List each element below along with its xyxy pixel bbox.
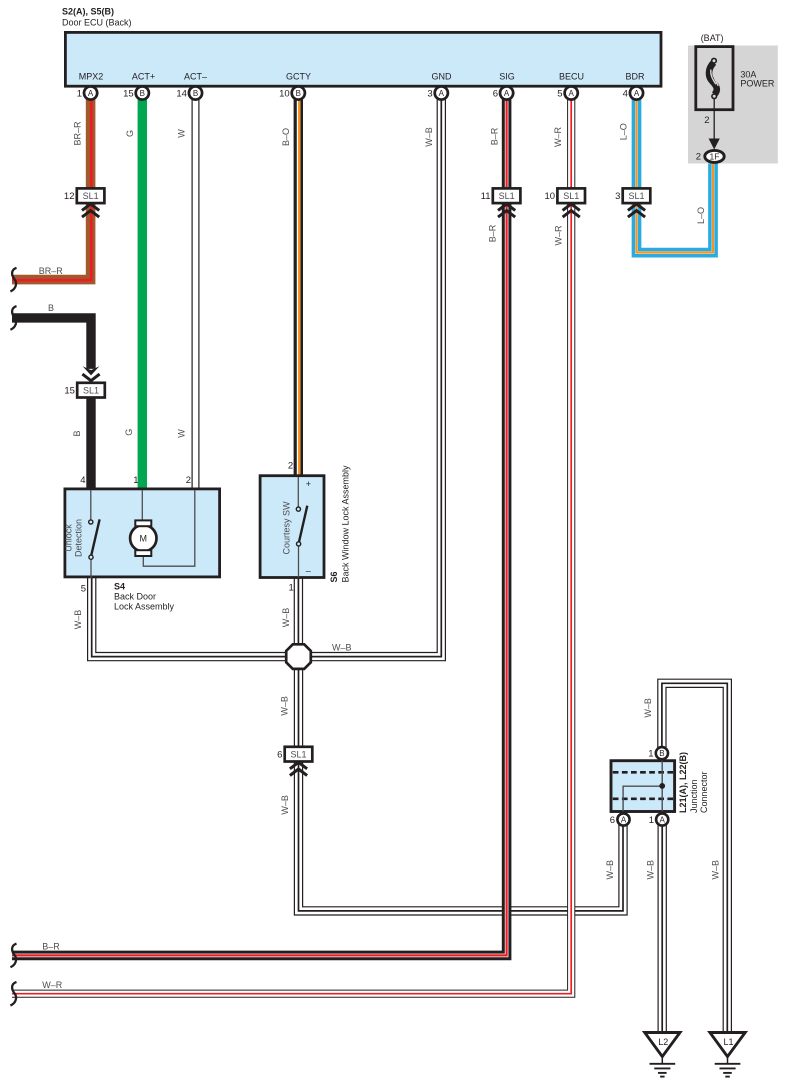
svg-text:Courtesy SW: Courtesy SW bbox=[282, 501, 292, 555]
svg-text:Junction: Junction bbox=[689, 779, 699, 813]
svg-text:ACT–: ACT– bbox=[184, 72, 207, 82]
svg-text:M: M bbox=[140, 533, 148, 543]
svg-text:BECU: BECU bbox=[559, 72, 584, 82]
svg-text:W–R: W–R bbox=[42, 980, 63, 990]
svg-text:SL1: SL1 bbox=[563, 191, 579, 201]
svg-text:2: 2 bbox=[704, 115, 709, 126]
svg-text:BDR: BDR bbox=[625, 72, 645, 82]
svg-text:W–B: W–B bbox=[280, 795, 290, 815]
svg-text:GND: GND bbox=[432, 72, 453, 82]
svg-text:B–R: B–R bbox=[42, 942, 60, 952]
svg-text:B: B bbox=[296, 89, 301, 98]
svg-text:G: G bbox=[124, 429, 134, 436]
svg-text:(BAT): (BAT) bbox=[701, 33, 724, 43]
svg-text:B: B bbox=[48, 303, 54, 313]
svg-text:S4: S4 bbox=[114, 582, 125, 592]
svg-text:A: A bbox=[88, 89, 94, 98]
svg-text:1: 1 bbox=[648, 749, 653, 760]
svg-text:15: 15 bbox=[64, 385, 75, 396]
svg-text:W–B: W–B bbox=[332, 643, 352, 653]
svg-text:Door ECU (Back): Door ECU (Back) bbox=[62, 18, 132, 28]
svg-text:3: 3 bbox=[427, 89, 432, 100]
svg-text:Connector: Connector bbox=[699, 771, 709, 813]
svg-text:4: 4 bbox=[80, 475, 85, 486]
svg-text:SL1: SL1 bbox=[499, 191, 515, 201]
svg-text:W: W bbox=[177, 129, 187, 138]
svg-text:2: 2 bbox=[288, 461, 293, 472]
svg-text:BR–R: BR–R bbox=[73, 121, 83, 146]
svg-text:G: G bbox=[125, 130, 135, 137]
svg-text:L1: L1 bbox=[723, 1037, 733, 1047]
svg-text:SIG: SIG bbox=[499, 72, 515, 82]
svg-text:Back Window Lock Assembly: Back Window Lock Assembly bbox=[341, 465, 351, 583]
svg-text:6: 6 bbox=[277, 749, 282, 760]
svg-text:W–B: W–B bbox=[643, 698, 653, 718]
svg-text:B: B bbox=[193, 89, 198, 98]
svg-text:5: 5 bbox=[81, 584, 86, 595]
svg-text:L–O: L–O bbox=[696, 207, 706, 224]
svg-text:POWER: POWER bbox=[740, 78, 775, 88]
svg-text:L–O: L–O bbox=[618, 123, 628, 140]
svg-text:A: A bbox=[660, 816, 666, 825]
svg-text:W: W bbox=[177, 429, 187, 438]
svg-text:SL1: SL1 bbox=[83, 385, 99, 395]
svg-text:1: 1 bbox=[649, 815, 654, 826]
svg-text:B–R: B–R bbox=[488, 224, 498, 242]
svg-text:MPX2: MPX2 bbox=[79, 72, 104, 82]
svg-text:W–B: W–B bbox=[605, 860, 615, 880]
svg-text:3: 3 bbox=[615, 191, 620, 202]
svg-text:6: 6 bbox=[610, 815, 615, 826]
svg-text:+: + bbox=[306, 479, 311, 489]
svg-text:SL1: SL1 bbox=[628, 191, 644, 201]
svg-text:SL1: SL1 bbox=[290, 749, 306, 759]
svg-text:12: 12 bbox=[64, 191, 75, 202]
svg-text:Back Door: Back Door bbox=[114, 592, 156, 602]
svg-text:A: A bbox=[634, 89, 640, 98]
svg-text:15: 15 bbox=[123, 89, 134, 100]
svg-text:2: 2 bbox=[696, 152, 701, 163]
svg-text:A: A bbox=[439, 89, 445, 98]
svg-text:14: 14 bbox=[176, 89, 187, 100]
svg-text:B: B bbox=[72, 430, 82, 436]
svg-text:Detection: Detection bbox=[74, 519, 84, 557]
svg-text:W–R: W–R bbox=[553, 127, 563, 148]
svg-text:ACT+: ACT+ bbox=[132, 72, 155, 82]
svg-text:W–B: W–B bbox=[645, 860, 655, 880]
svg-text:BR–R: BR–R bbox=[39, 266, 64, 276]
svg-text:S6: S6 bbox=[329, 571, 339, 582]
svg-text:1: 1 bbox=[289, 583, 294, 594]
svg-text:Lock Assembly: Lock Assembly bbox=[114, 601, 175, 611]
svg-text:A: A bbox=[504, 89, 510, 98]
svg-text:10: 10 bbox=[279, 89, 290, 100]
svg-text:B: B bbox=[140, 89, 145, 98]
svg-text:S2(A), S5(B): S2(A), S5(B) bbox=[62, 7, 114, 17]
svg-text:W–B: W–B bbox=[281, 608, 291, 628]
svg-text:1: 1 bbox=[133, 475, 138, 486]
svg-text:–: – bbox=[306, 566, 311, 576]
svg-text:Unlock: Unlock bbox=[64, 524, 74, 552]
svg-text:A: A bbox=[621, 816, 627, 825]
svg-text:6: 6 bbox=[493, 89, 498, 100]
svg-text:B–R: B–R bbox=[490, 127, 500, 145]
svg-text:2: 2 bbox=[186, 475, 191, 486]
svg-text:10: 10 bbox=[545, 191, 556, 202]
svg-text:5: 5 bbox=[557, 89, 562, 100]
svg-text:W–B: W–B bbox=[710, 860, 720, 880]
svg-text:1F: 1F bbox=[710, 151, 720, 161]
svg-text:W–B: W–B bbox=[280, 696, 290, 716]
svg-text:W–B: W–B bbox=[73, 610, 83, 630]
svg-text:B–O: B–O bbox=[281, 128, 291, 146]
svg-text:W–B: W–B bbox=[424, 127, 434, 147]
svg-text:11: 11 bbox=[481, 191, 491, 202]
svg-text:GCTY: GCTY bbox=[286, 72, 311, 82]
svg-text:L21(A), L22(B): L21(A), L22(B) bbox=[678, 752, 688, 813]
svg-text:SL1: SL1 bbox=[83, 191, 99, 201]
svg-text:W–R: W–R bbox=[554, 225, 564, 246]
svg-text:L2: L2 bbox=[658, 1037, 668, 1047]
svg-text:B: B bbox=[659, 749, 664, 758]
svg-text:4: 4 bbox=[623, 89, 628, 100]
svg-text:1: 1 bbox=[77, 89, 82, 100]
svg-text:A: A bbox=[569, 89, 575, 98]
